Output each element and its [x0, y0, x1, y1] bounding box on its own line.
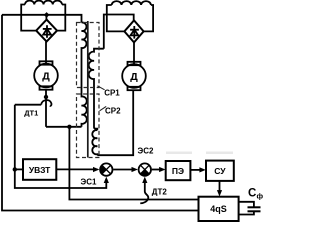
svg-text:ф: ф: [257, 192, 264, 201]
svg-text:СР1: СР1: [104, 89, 120, 98]
svg-text:С: С: [248, 188, 256, 200]
svg-text:УВЗТ: УВЗТ: [29, 165, 51, 175]
svg-text:СР2: СР2: [105, 107, 121, 116]
svg-text:ДТ1: ДТ1: [24, 109, 38, 118]
svg-text:ЭС1: ЭС1: [81, 177, 97, 186]
svg-text:Д: Д: [130, 71, 138, 83]
svg-text:ЭС2: ЭС2: [138, 147, 154, 156]
svg-text:Д: Д: [42, 71, 50, 83]
svg-text:4qS: 4qS: [210, 204, 227, 214]
svg-text:СУ: СУ: [214, 166, 226, 176]
svg-text:ДТ2: ДТ2: [152, 187, 168, 196]
svg-text:ПЭ: ПЭ: [172, 166, 184, 176]
